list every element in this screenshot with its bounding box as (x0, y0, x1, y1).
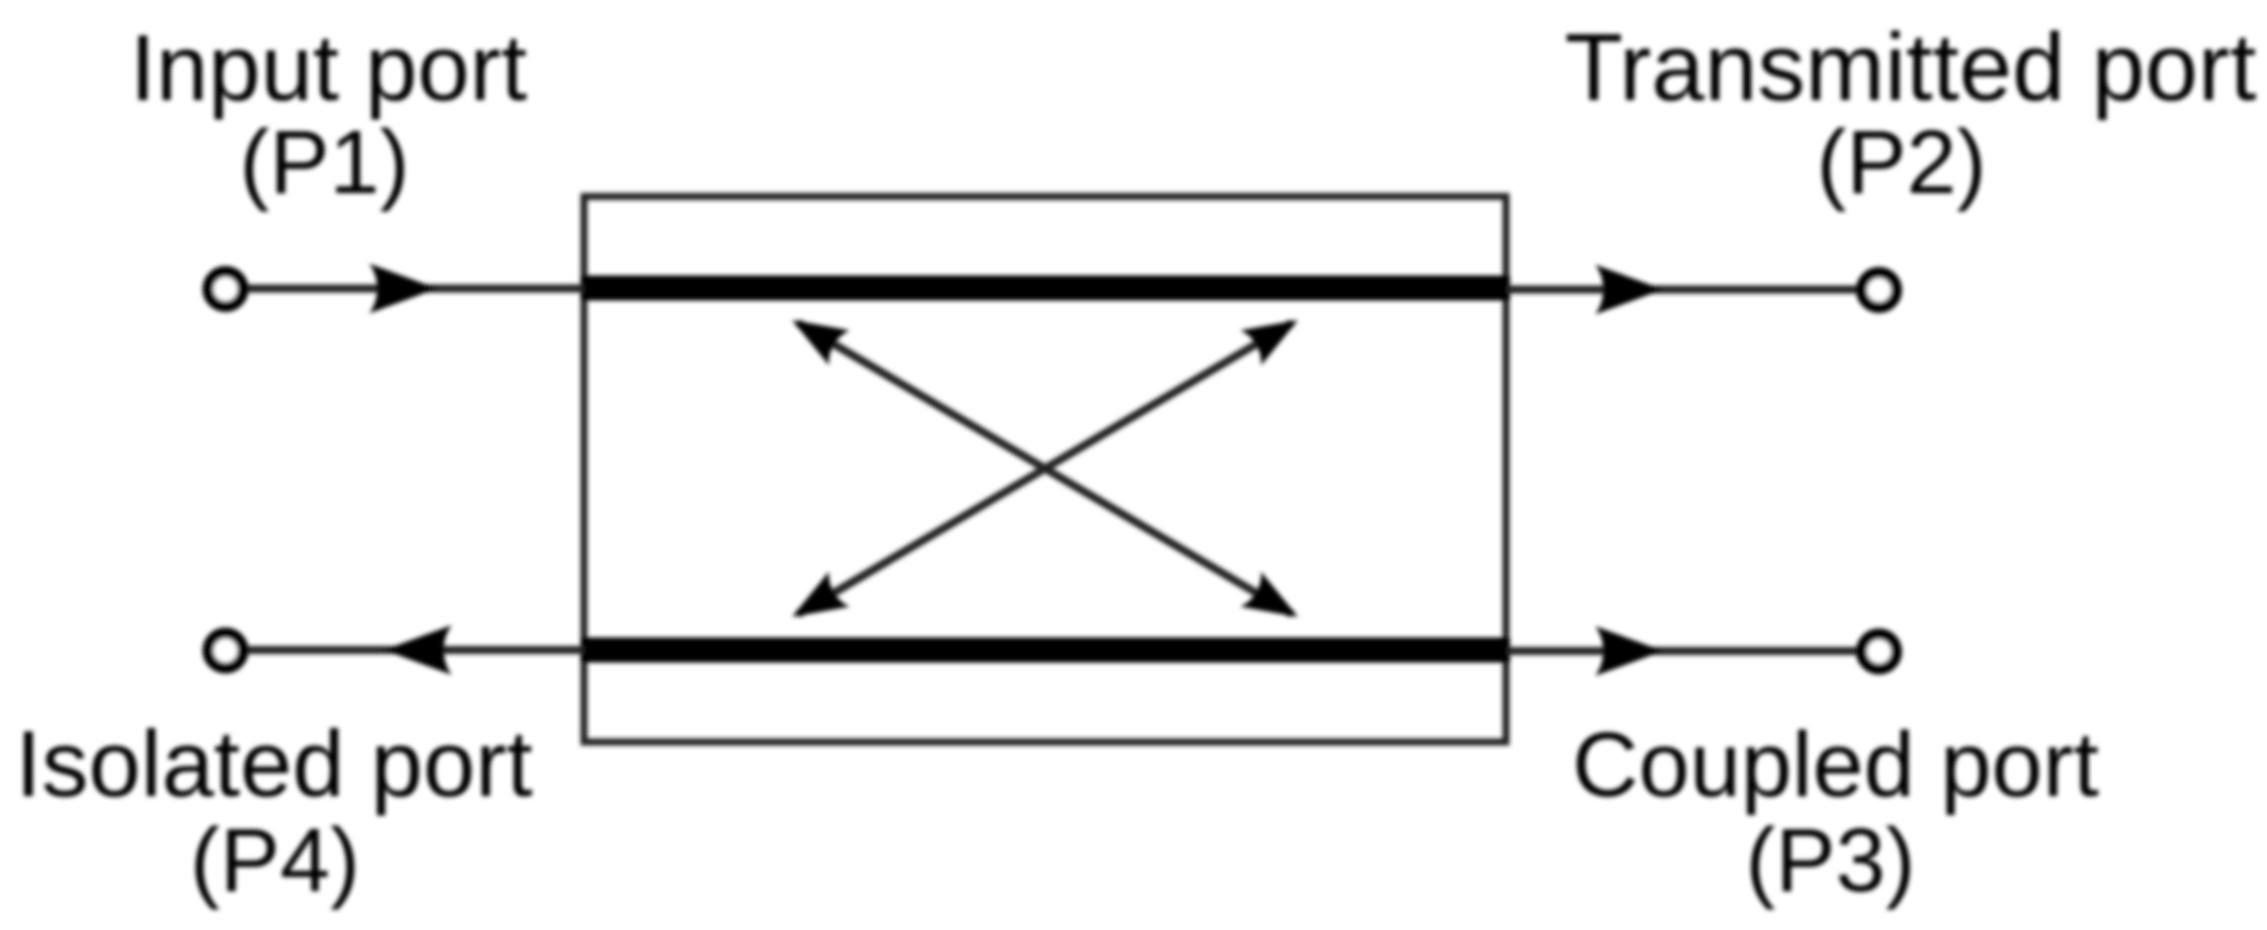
arrowhead diagonal B bottom-left (782, 572, 850, 635)
svg-text:(P3): (P3) (1745, 811, 1915, 911)
terminal P2 (1862, 273, 1897, 308)
arrowhead on P3 wire (pointing right) (1595, 626, 1663, 676)
wire box to P3 (1507, 647, 1857, 655)
svg-text:(P2): (P2) (1816, 113, 1986, 213)
arrowhead on P2 wire (pointing right) (1595, 265, 1663, 315)
coupler body box (584, 197, 1506, 743)
terminal P4 (208, 633, 243, 668)
arrowhead diagonal A bottom-right (1240, 572, 1308, 635)
coupled transmission line (bottom bar) (581, 638, 1510, 663)
coupling path diagonal B (bottom-left to top-right) (798, 323, 1292, 614)
wire box to P4 (248, 646, 584, 654)
svg-text:(P1): (P1) (239, 113, 409, 213)
wire box to P2 (1507, 286, 1857, 294)
terminal P3 (1862, 634, 1897, 669)
svg-text:(P4): (P4) (190, 811, 360, 911)
wire P1 to box (248, 285, 584, 293)
svg-text:Input port: Input port (130, 15, 527, 120)
svg-text:Isolated port: Isolated port (15, 711, 532, 816)
coupling path diagonal A (top-left to bottom-right) (798, 323, 1292, 614)
svg-text:Transmitted port: Transmitted port (1565, 15, 2257, 121)
arrowhead on P4 wire (pointing left) (384, 625, 452, 675)
arrowhead diagonal B top-right (1240, 303, 1308, 366)
arrowhead diagonal A top-left (782, 302, 850, 365)
main transmission line (top bar) (581, 276, 1510, 301)
terminal P1 (208, 272, 243, 307)
arrowhead on P1 wire (pointing right) (369, 264, 437, 314)
svg-text:Coupled port: Coupled port (1572, 714, 2099, 816)
